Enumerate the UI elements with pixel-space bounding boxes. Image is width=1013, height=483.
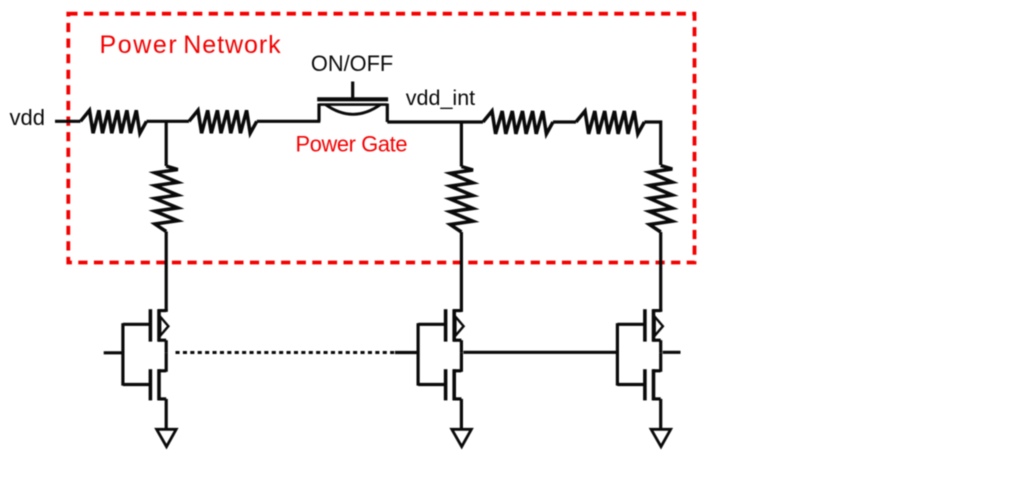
inverter X1: input gate tie: [123, 323, 151, 385]
resistor R1 (vdd rail, left): [81, 110, 147, 133]
ground symbol under inverter X2: [452, 429, 472, 446]
resistor R6 (middle branch, vertical): [450, 167, 473, 233]
wire: power-gate drain to node vdd_int and R3: [387, 120, 483, 123]
inverter X3: input gate tie: [617, 323, 646, 385]
wire: vdd lead-in: [55, 120, 81, 123]
wire: R4 to right corner turning down: [644, 122, 660, 165]
inverter X1: NMOS transistor: [150, 353, 166, 429]
wire: inverter X3 output stub: [663, 351, 681, 354]
inverter X1: PMOS transistor: [150, 309, 168, 353]
wire: inverter X2 output to inverter X3 input: [463, 351, 617, 354]
resistor R7 (right branch, vertical): [649, 166, 672, 233]
wire: R7 to inverter X3 supply: [659, 232, 662, 311]
resistor R2 (vdd rail): [189, 110, 257, 133]
ground symbol under inverter X1: [157, 429, 177, 446]
svg-text:vdd_int: vdd_int: [406, 86, 475, 110]
dotted wire: inverter X1 output to inverter X2 input: [176, 351, 396, 354]
wire: node A down to R5: [165, 121, 168, 166]
svg-text:Power: Power: [100, 31, 179, 59]
inverter X2: PMOS transistor: [446, 309, 464, 353]
wire: R5 to inverter X1 supply: [165, 232, 168, 311]
wire: dotted line end to X2 gate tie: [395, 351, 418, 354]
wire: R1 to R2 through node A: [147, 120, 190, 123]
resistor R5 (left branch, vertical): [155, 166, 178, 232]
svg-text:ON/OFF: ON/OFF: [311, 51, 393, 76]
inverter X2: input gate tie: [418, 323, 447, 385]
wire: ON/OFF control to power-gate gate: [351, 82, 354, 99]
resistor R4 (vdd_int rail, right): [576, 111, 644, 134]
ground symbol under inverter X3: [651, 429, 671, 446]
power-gate PMOS transistor (gate bar, channel, curved bulk, source/drain leads): [317, 99, 388, 122]
inverter X3: NMOS transistor: [645, 353, 661, 429]
svg-text:Power Gate: Power Gate: [296, 132, 408, 157]
power network boundary box (red dashed): [68, 14, 694, 263]
svg-text:vdd: vdd: [10, 105, 45, 130]
wire: R2 to power-gate source: [257, 120, 321, 123]
svg-text:Network: Network: [183, 31, 281, 59]
inverter X3: PMOS transistor: [645, 309, 663, 353]
resistor R3 (vdd_int rail): [483, 111, 553, 134]
wire: node vdd_int down to R6: [460, 122, 463, 167]
inverter X2: NMOS transistor: [446, 353, 462, 429]
wire: R6 to inverter X2 supply: [460, 232, 463, 311]
wire: input to inverter X1: [104, 351, 123, 354]
wire: R3 to R4: [553, 120, 576, 123]
